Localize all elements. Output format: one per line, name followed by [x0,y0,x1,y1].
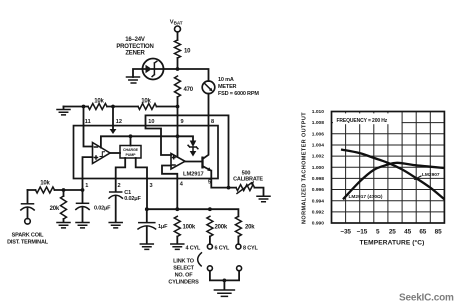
svg-text:CALIBRATE: CALIBRATE [233,177,263,183]
node pin11 branch [82,105,86,109]
wire link arc [198,252,202,266]
resistor R 100k [174,216,196,243]
wire R10 to junction [177,58,179,69]
svg-text:10: 10 [184,49,191,55]
op-amp U1B [171,154,185,170]
svg-text:10: 10 [148,119,154,125]
node pin9 supply [176,134,180,138]
wire op-amp2 minus staircase to pin 4 [162,166,177,179]
node 8 CYL terminal [236,244,241,249]
ground zener [127,77,140,83]
graph y axis labels [312,109,325,227]
node pin12 branch [111,105,115,109]
wire bottom bus [147,209,239,216]
svg-text:0.990: 0.990 [312,221,325,227]
svg-text:12: 12 [116,119,122,125]
wire VBAT to R10 [177,32,179,40]
svg-text:DIST. TERMINAL: DIST. TERMINAL [7,240,49,246]
wire between 10k resistors [107,106,138,108]
wire zener to junction [164,68,178,70]
ground 100k 4 CYL [171,244,184,249]
svg-text:5: 5 [376,228,380,235]
svg-text:0.998: 0.998 [312,176,325,182]
wire internal supply line [101,136,193,147]
transistor Q1 [185,157,212,172]
node spark coil terminal [25,219,31,225]
potentiometer 500 CALIBRATE [233,171,263,194]
svg-text:PUMP: PUMP [126,153,137,157]
charge pump block [120,136,141,158]
svg-text:SELECT: SELECT [173,266,194,272]
wire pin 12 internal ground arrow [112,107,114,130]
wire pin 4 down [176,179,178,210]
svg-text:470: 470 [184,87,194,93]
svg-text:LM2907: LM2907 [422,172,440,178]
ground C1 [109,223,122,228]
svg-text:1: 1 [85,183,88,189]
svg-text:65: 65 [419,228,426,235]
node input junction [62,188,66,192]
svg-text:ZENER: ZENER [125,51,145,57]
svg-text:NORMALIZED TACHOMETER OUTPUT: NORMALIZED TACHOMETER OUTPUT [302,112,308,224]
svg-text:1.010: 1.010 [312,109,325,115]
wire pin 9 supply into IC [177,107,179,158]
wire 10k to supply node [157,106,178,108]
svg-text:8 CYL: 8 CYL [243,246,259,252]
svg-text:3: 3 [150,183,153,189]
svg-text:VBAT: VBAT [170,20,183,26]
svg-text:CHARGE: CHARGE [123,148,139,152]
capacitor input coupling [21,190,34,219]
svg-text:45: 45 [404,228,411,235]
wire op-amp1 output to charge pump [110,152,120,154]
svg-text:−15: −15 [357,228,368,235]
svg-text:1.000: 1.000 [312,165,325,171]
label link to select [168,259,199,286]
zener D1 16-24V protection [116,37,163,80]
graph frame and grid [332,112,445,224]
curve LM2917 rising [343,163,444,200]
resistor R 10 [175,40,192,58]
svg-text:0.02μF: 0.02μF [94,206,111,212]
node supply rail junction [176,105,180,109]
svg-text:0.994: 0.994 [312,198,325,204]
ground calibrate [257,196,270,201]
wire pin 3 down [146,179,148,210]
graph frequency label [333,113,402,124]
node pin 1 input junction [81,188,85,192]
svg-text:LM2917: LM2917 [183,172,204,178]
curve LM2907 steep [341,150,444,200]
capacitor 1uF [138,209,168,243]
svg-text:10k: 10k [94,99,104,105]
resistor R 10k input [36,181,55,194]
wire input node to pin 1 [64,189,83,191]
resistor R 20k cyl [235,216,255,244]
svg-text:4 CYL: 4 CYL [186,246,202,252]
svg-text:LM2917 (470Ω): LM2917 (470Ω) [349,194,383,200]
node calibrate junction [227,186,231,190]
node pin3 bus [145,207,149,211]
node pin4 bus [175,207,179,211]
svg-text:9: 9 [181,119,184,125]
svg-text:10k: 10k [40,181,50,187]
node 6 CYL terminal [207,244,212,249]
svg-text:1.002: 1.002 [312,154,325,160]
wire charge pump to pin 3 [136,158,147,179]
svg-text:−35: −35 [340,228,351,235]
svg-text:10 mA: 10 mA [218,77,234,83]
svg-text:20k: 20k [245,225,255,231]
svg-text:NO. OF: NO. OF [175,273,194,279]
svg-text:10k: 10k [141,99,151,105]
svg-text:SPARK COIL: SPARK COIL [12,233,45,239]
op-amp U1A input comparator [93,143,111,164]
resistor R 10k second [138,99,157,110]
capacitor 0.02uF pin 1 [76,190,111,222]
svg-text:1μF: 1μF [158,224,168,230]
svg-text:25: 25 [389,228,396,235]
svg-text:SeekIC.com: SeekIC.com [399,293,454,304]
node charge pump supply [129,134,133,138]
svg-text:FREQUENCY = 200 Hz: FREQUENCY = 200 Hz [337,118,388,124]
node junction VBAT rail [176,67,180,71]
meter M1 10mA [202,77,259,97]
svg-text:200k: 200k [215,225,228,231]
svg-text:TEMPERATURE (°C): TEMPERATURE (°C) [360,238,425,246]
node 200k bus [208,207,212,211]
wire junction to meter [178,69,209,81]
svg-text:2: 2 [118,183,121,189]
svg-text:1.006: 1.006 [312,131,325,137]
svg-text:8: 8 [211,119,214,125]
wire pin 11 to op-amp minus [84,107,93,147]
node link ground junction [223,279,227,283]
wire R470 to supply rail [177,97,179,107]
svg-text:100k: 100k [183,225,196,231]
resistor R 470 [175,76,194,97]
label LM2907 with arrow [414,172,440,180]
svg-text:FSD = 6000 RPM: FSD = 6000 RPM [218,91,259,97]
svg-text:LINK TO: LINK TO [173,259,195,265]
wire pin 1 to op-amp plus [83,157,93,190]
svg-text:6 CYL: 6 CYL [215,246,231,252]
svg-text:0.992: 0.992 [312,210,325,216]
wire meter to pin 8 and transistor collector [203,94,209,159]
wire link common [210,271,239,281]
wire ground to 10k [64,106,89,108]
svg-text:20k: 20k [50,206,60,212]
ground pin1 cap [76,223,89,228]
IC U1 LM2917 outline [74,126,219,179]
node VBAT terminal [170,20,183,32]
ground 1uF [140,244,153,249]
node link terminal left [207,266,212,271]
wire emitter to pin 5 and calibrate [211,171,228,188]
svg-text:METER: METER [218,84,237,90]
graph border [332,112,445,224]
svg-text:0.996: 0.996 [312,187,325,193]
svg-text:1.008: 1.008 [312,120,325,126]
svg-text:11: 11 [85,119,91,125]
ground 20k [57,223,70,228]
wire pot junction [229,188,264,196]
resistor R 10k first [88,99,107,110]
wire charge pump to pin 2 [116,158,126,179]
resistor R 200k [207,216,228,244]
resistor R 20k input [50,190,67,222]
zener internal DZ [188,141,198,157]
svg-text:0.02μF: 0.02μF [124,196,141,202]
wire zener to ground [133,69,143,77]
svg-text:1.004: 1.004 [312,143,325,149]
node link terminal right [237,266,242,271]
ground left rail [63,107,65,109]
svg-text:CYLINDERS: CYLINDERS [168,280,199,286]
graph x axis labels [340,228,442,235]
svg-text:85: 85 [435,228,442,235]
capacitor C1 0.02uF pin 2 [109,179,141,223]
ground link [214,290,234,296]
svg-text:16–24V: 16–24V [125,37,145,43]
wire pin 10 feedback loop [146,115,229,187]
svg-text:PROTECTION: PROTECTION [116,44,153,50]
